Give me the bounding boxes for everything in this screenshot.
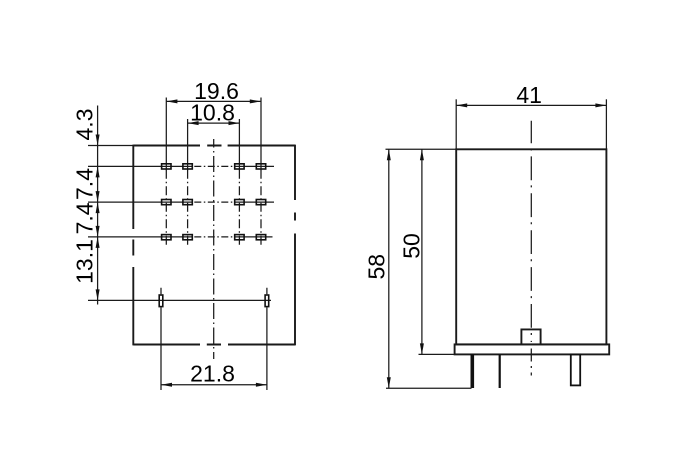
centerline col 2 — [187, 170, 189, 246]
centerline col 4 — [260, 170, 262, 246]
extension line col 4 (19.6 right) — [260, 98, 262, 171]
extension line col 1 (19.6 left) — [165, 98, 167, 171]
dimension 10.8 line — [188, 122, 240, 124]
base flange — [455, 344, 610, 354]
58 bottom tick (pin bottom level) — [386, 387, 472, 389]
pin 8 row2 — [256, 200, 265, 205]
svg-text:41: 41 — [516, 82, 542, 108]
41 extension line left — [455, 99, 457, 149]
mounting pin right vertical line — [266, 288, 268, 390]
pin 2 row1 — [183, 164, 192, 169]
pin 1 row1 — [162, 164, 171, 169]
dimension 50 line — [421, 149, 423, 354]
pin 4 row1 — [256, 164, 265, 169]
body outline right view — [456, 149, 606, 344]
pin 12 row3 — [256, 235, 265, 240]
pin C (right, wide) — [571, 354, 580, 385]
svg-text:10.8: 10.8 — [190, 100, 235, 126]
dimension 21.8 left arrow — [161, 383, 172, 387]
arrow down to row4 (13.1) — [96, 289, 100, 300]
pin 10 row3 — [183, 235, 192, 240]
pin B (middle) — [499, 354, 501, 388]
pin 6 row2 — [183, 200, 192, 205]
mounting pin left — [159, 295, 163, 307]
arrow down to row2 (7.4) — [96, 191, 100, 202]
mounting pin right — [265, 295, 269, 307]
dimension 10.8 left arrow — [188, 121, 199, 125]
dimension 41 right arrow — [595, 103, 606, 107]
dimension 58 line — [388, 149, 390, 388]
41 extension line right — [605, 99, 607, 149]
dimension 41 left arrow — [456, 103, 467, 107]
arrow up from row2 (7.4) — [96, 202, 100, 213]
pin row line 4 (mounting pins) — [88, 299, 271, 301]
pin 9 row3 — [162, 235, 171, 240]
50 bottom arrow — [420, 343, 424, 354]
pin 7 row2 — [235, 200, 244, 205]
svg-text:21.8: 21.8 — [190, 360, 235, 386]
centerline col 1 — [165, 170, 167, 246]
left vertical dimension line — [97, 106, 99, 305]
pin 3 row1 — [235, 164, 244, 169]
pin row line 1 — [88, 165, 274, 167]
body outline top edge — [133, 145, 295, 147]
center tab on base — [521, 329, 540, 344]
dimension 21.8 line — [161, 384, 267, 386]
pin 5 row2 — [162, 200, 171, 205]
dimension 10.8 right arrow — [229, 121, 240, 125]
arrow down to top edge (4.3) — [96, 135, 100, 146]
extension line col 2 (10.8 left) — [187, 119, 189, 170]
dimension 41 line — [456, 104, 606, 106]
58 bottom arrow — [387, 377, 391, 388]
dimension 21.8 right arrow — [256, 383, 267, 387]
pin row line 2 — [88, 201, 274, 203]
svg-text:58: 58 — [363, 254, 389, 280]
50 bottom tick (flange bottom extension) — [419, 353, 455, 355]
58 top arrow — [387, 149, 391, 160]
pin row line 3 — [88, 236, 273, 238]
arrow down to row3 (7.4) — [96, 226, 100, 237]
svg-text:13.1: 13.1 — [71, 239, 97, 284]
body outline left edge — [132, 145, 134, 346]
mounting pin left vertical line — [160, 288, 162, 390]
dimension 19.6 right arrow — [250, 99, 261, 103]
top edge extension line to left dimension — [88, 145, 133, 147]
pin 11 row3 — [235, 235, 244, 240]
pin A (left) — [470, 354, 474, 388]
body outline bottom edge — [133, 344, 295, 346]
svg-text:50: 50 — [398, 233, 424, 259]
centerline col 3 — [238, 170, 240, 246]
main vertical centerline right view — [530, 121, 532, 342]
extension line col 3 (10.8 right) — [238, 119, 240, 170]
svg-text:7.4: 7.4 — [71, 202, 97, 234]
50 top arrow — [420, 149, 424, 160]
dimension 19.6 left arrow — [166, 99, 177, 103]
top edge extension line to left — [386, 148, 457, 150]
arrow up from row3 (13.1) — [96, 237, 100, 248]
arrow up to row1 (4.3/7.4) — [96, 166, 100, 177]
main vertical centerline left view — [213, 139, 215, 359]
body outline right edge — [294, 145, 296, 346]
svg-text:7.4: 7.4 — [71, 168, 97, 200]
dimension 19.6 line — [166, 100, 260, 102]
svg-text:4.3: 4.3 — [71, 109, 97, 141]
